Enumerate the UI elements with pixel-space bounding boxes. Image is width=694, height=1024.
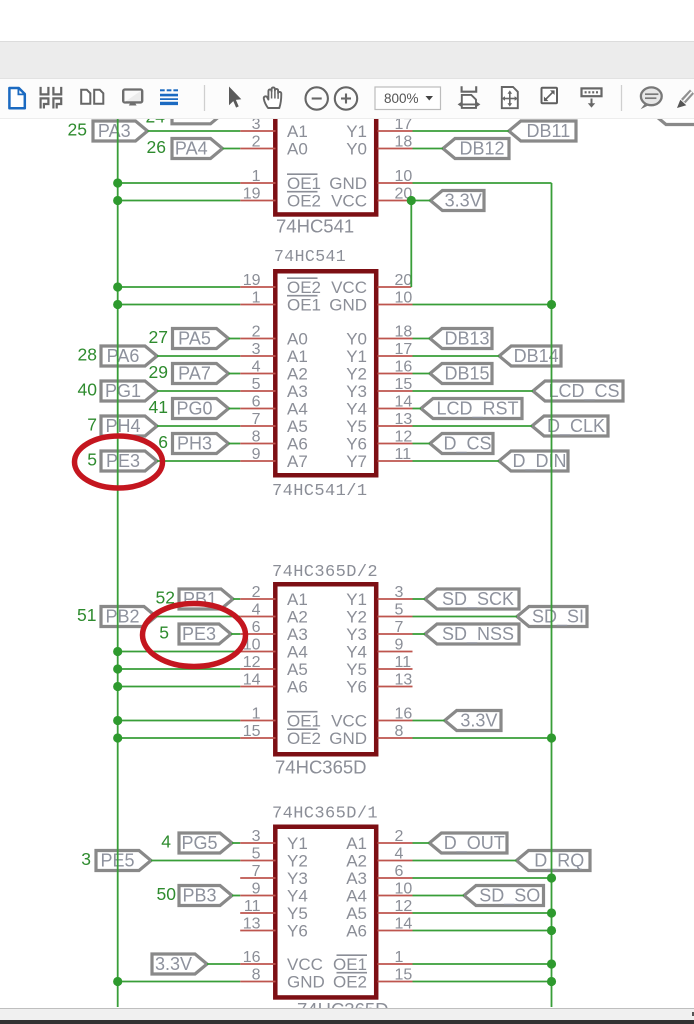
svg-text:A6: A6	[346, 922, 367, 941]
svg-text:74HC365D/1: 74HC365D/1	[272, 805, 378, 824]
svg-text:Y2: Y2	[346, 608, 367, 627]
svg-text:SD_SCK: SD_SCK	[442, 589, 514, 610]
svg-text:A4: A4	[346, 887, 367, 906]
svg-text:Y4: Y4	[346, 643, 367, 662]
svg-text:PB2: PB2	[105, 606, 139, 626]
svg-text:A7: A7	[287, 452, 308, 471]
svg-text:D_OUT: D_OUT	[444, 833, 505, 854]
svg-text:3.3V: 3.3V	[445, 190, 482, 210]
svg-text:A6: A6	[287, 435, 308, 454]
svg-text:D_DIN: D_DIN	[512, 451, 566, 472]
svg-text:Y1: Y1	[287, 834, 308, 853]
svg-text:27: 27	[149, 327, 168, 347]
svg-text:LCD_RST: LCD_RST	[436, 398, 518, 419]
svg-text:A3: A3	[287, 382, 308, 401]
svg-text:Y0: Y0	[346, 140, 367, 159]
svg-text:7: 7	[87, 415, 97, 435]
svg-text:Y3: Y3	[346, 625, 367, 644]
svg-text:GND: GND	[329, 729, 367, 748]
svg-text:5: 5	[87, 450, 97, 470]
svg-text:SD_SI: SD_SI	[532, 606, 584, 627]
svg-text:A2: A2	[287, 365, 308, 384]
svg-text:74HC541: 74HC541	[276, 216, 354, 237]
svg-text:OE2: OE2	[287, 192, 321, 211]
svg-text:A1: A1	[346, 834, 367, 853]
svg-text:Y3: Y3	[287, 869, 308, 888]
svg-text:OE1: OE1	[333, 955, 367, 974]
svg-text:OE1: OE1	[287, 712, 321, 731]
svg-text:29: 29	[149, 362, 168, 382]
svg-text:DB11: DB11	[527, 121, 571, 141]
svg-text:Y6: Y6	[287, 922, 308, 941]
svg-text:OE1: OE1	[287, 296, 321, 315]
svg-text:A3: A3	[287, 625, 308, 644]
svg-text:PA6: PA6	[107, 346, 140, 366]
svg-text:Y0: Y0	[346, 330, 367, 349]
svg-text:OE1: OE1	[287, 174, 321, 193]
svg-text:D_CS: D_CS	[443, 433, 491, 454]
svg-text:Y1: Y1	[346, 122, 367, 141]
svg-text:Y5: Y5	[346, 660, 367, 679]
svg-text:A5: A5	[287, 417, 308, 436]
svg-text:Y2: Y2	[346, 365, 367, 384]
svg-text:PE3: PE3	[106, 451, 140, 471]
svg-text:Y1: Y1	[346, 590, 367, 609]
svg-text:50: 50	[157, 884, 177, 904]
svg-text:Y4: Y4	[287, 887, 308, 906]
svg-text:Y2: Y2	[287, 852, 308, 871]
svg-text:SD_NSS: SD_NSS	[442, 624, 514, 645]
svg-text:PE3: PE3	[182, 624, 216, 644]
svg-text:A5: A5	[287, 660, 308, 679]
svg-text:A6: A6	[287, 678, 308, 697]
svg-text:VCC: VCC	[331, 278, 367, 297]
svg-text:D_CLK: D_CLK	[547, 416, 605, 437]
svg-text:GND: GND	[329, 174, 367, 193]
svg-text:GND: GND	[329, 296, 367, 315]
svg-text:PG1: PG1	[105, 381, 141, 401]
svg-text:40: 40	[78, 380, 98, 400]
svg-text:5: 5	[159, 623, 169, 643]
svg-text:41: 41	[149, 397, 168, 417]
svg-text:PH4: PH4	[105, 416, 140, 436]
svg-text:Y5: Y5	[287, 904, 308, 923]
svg-text:LCD_CS: LCD_CS	[548, 381, 619, 402]
svg-text:A4: A4	[287, 643, 308, 662]
svg-text:800%: 800%	[384, 91, 419, 106]
svg-text:28: 28	[78, 345, 97, 365]
svg-text:3: 3	[81, 849, 91, 869]
svg-text:A1: A1	[287, 347, 308, 366]
svg-text:DB15: DB15	[444, 363, 489, 383]
svg-text:A1: A1	[287, 590, 308, 609]
svg-text:DB12: DB12	[459, 138, 504, 158]
svg-text:4: 4	[161, 832, 171, 852]
svg-text:GND: GND	[287, 973, 325, 992]
svg-text:PG5: PG5	[181, 833, 217, 853]
svg-text:A2: A2	[346, 852, 367, 871]
svg-text:PG0: PG0	[176, 398, 212, 418]
svg-text:DB13: DB13	[444, 328, 489, 348]
svg-text:Y3: Y3	[346, 382, 367, 401]
svg-text:SD_SO: SD_SO	[479, 885, 540, 906]
svg-text:PA5: PA5	[178, 328, 211, 348]
svg-text:3.3V: 3.3V	[460, 710, 497, 730]
svg-text:PA7: PA7	[178, 363, 211, 383]
svg-text:26: 26	[147, 137, 166, 157]
svg-text:Y1: Y1	[346, 347, 367, 366]
svg-text:Y6: Y6	[346, 678, 367, 697]
svg-text:D_RQ: D_RQ	[534, 850, 584, 871]
svg-text:3.3V: 3.3V	[155, 954, 192, 974]
svg-text:A0: A0	[287, 330, 308, 349]
svg-text:A2: A2	[287, 608, 308, 627]
svg-text:74HC365D/2: 74HC365D/2	[272, 563, 378, 582]
svg-text:PA4: PA4	[175, 138, 208, 158]
svg-text:Y7: Y7	[346, 452, 367, 471]
svg-text:PA3: PA3	[98, 121, 131, 141]
svg-text:A3: A3	[346, 869, 367, 888]
svg-text:OE2: OE2	[287, 729, 321, 748]
svg-text:Y6: Y6	[346, 435, 367, 454]
svg-text:VCC: VCC	[331, 192, 367, 211]
svg-text:A1: A1	[287, 122, 308, 141]
svg-text:74HC365D: 74HC365D	[275, 757, 367, 778]
svg-text:PH3: PH3	[177, 433, 212, 453]
svg-text:25: 25	[68, 120, 87, 140]
svg-text:OE2: OE2	[333, 973, 367, 992]
svg-text:51: 51	[77, 605, 96, 625]
svg-text:VCC: VCC	[331, 712, 367, 731]
svg-text:PB3: PB3	[182, 885, 216, 905]
svg-text:Y4: Y4	[346, 400, 367, 419]
svg-text:A0: A0	[287, 140, 308, 159]
svg-text:74HC541: 74HC541	[274, 247, 346, 266]
svg-text:Y5: Y5	[346, 417, 367, 436]
svg-text:74HC541/1: 74HC541/1	[272, 482, 367, 501]
svg-text:VCC: VCC	[287, 955, 323, 974]
svg-text:A4: A4	[287, 400, 308, 419]
svg-text:OE2: OE2	[287, 278, 321, 297]
svg-text:A5: A5	[346, 904, 367, 923]
